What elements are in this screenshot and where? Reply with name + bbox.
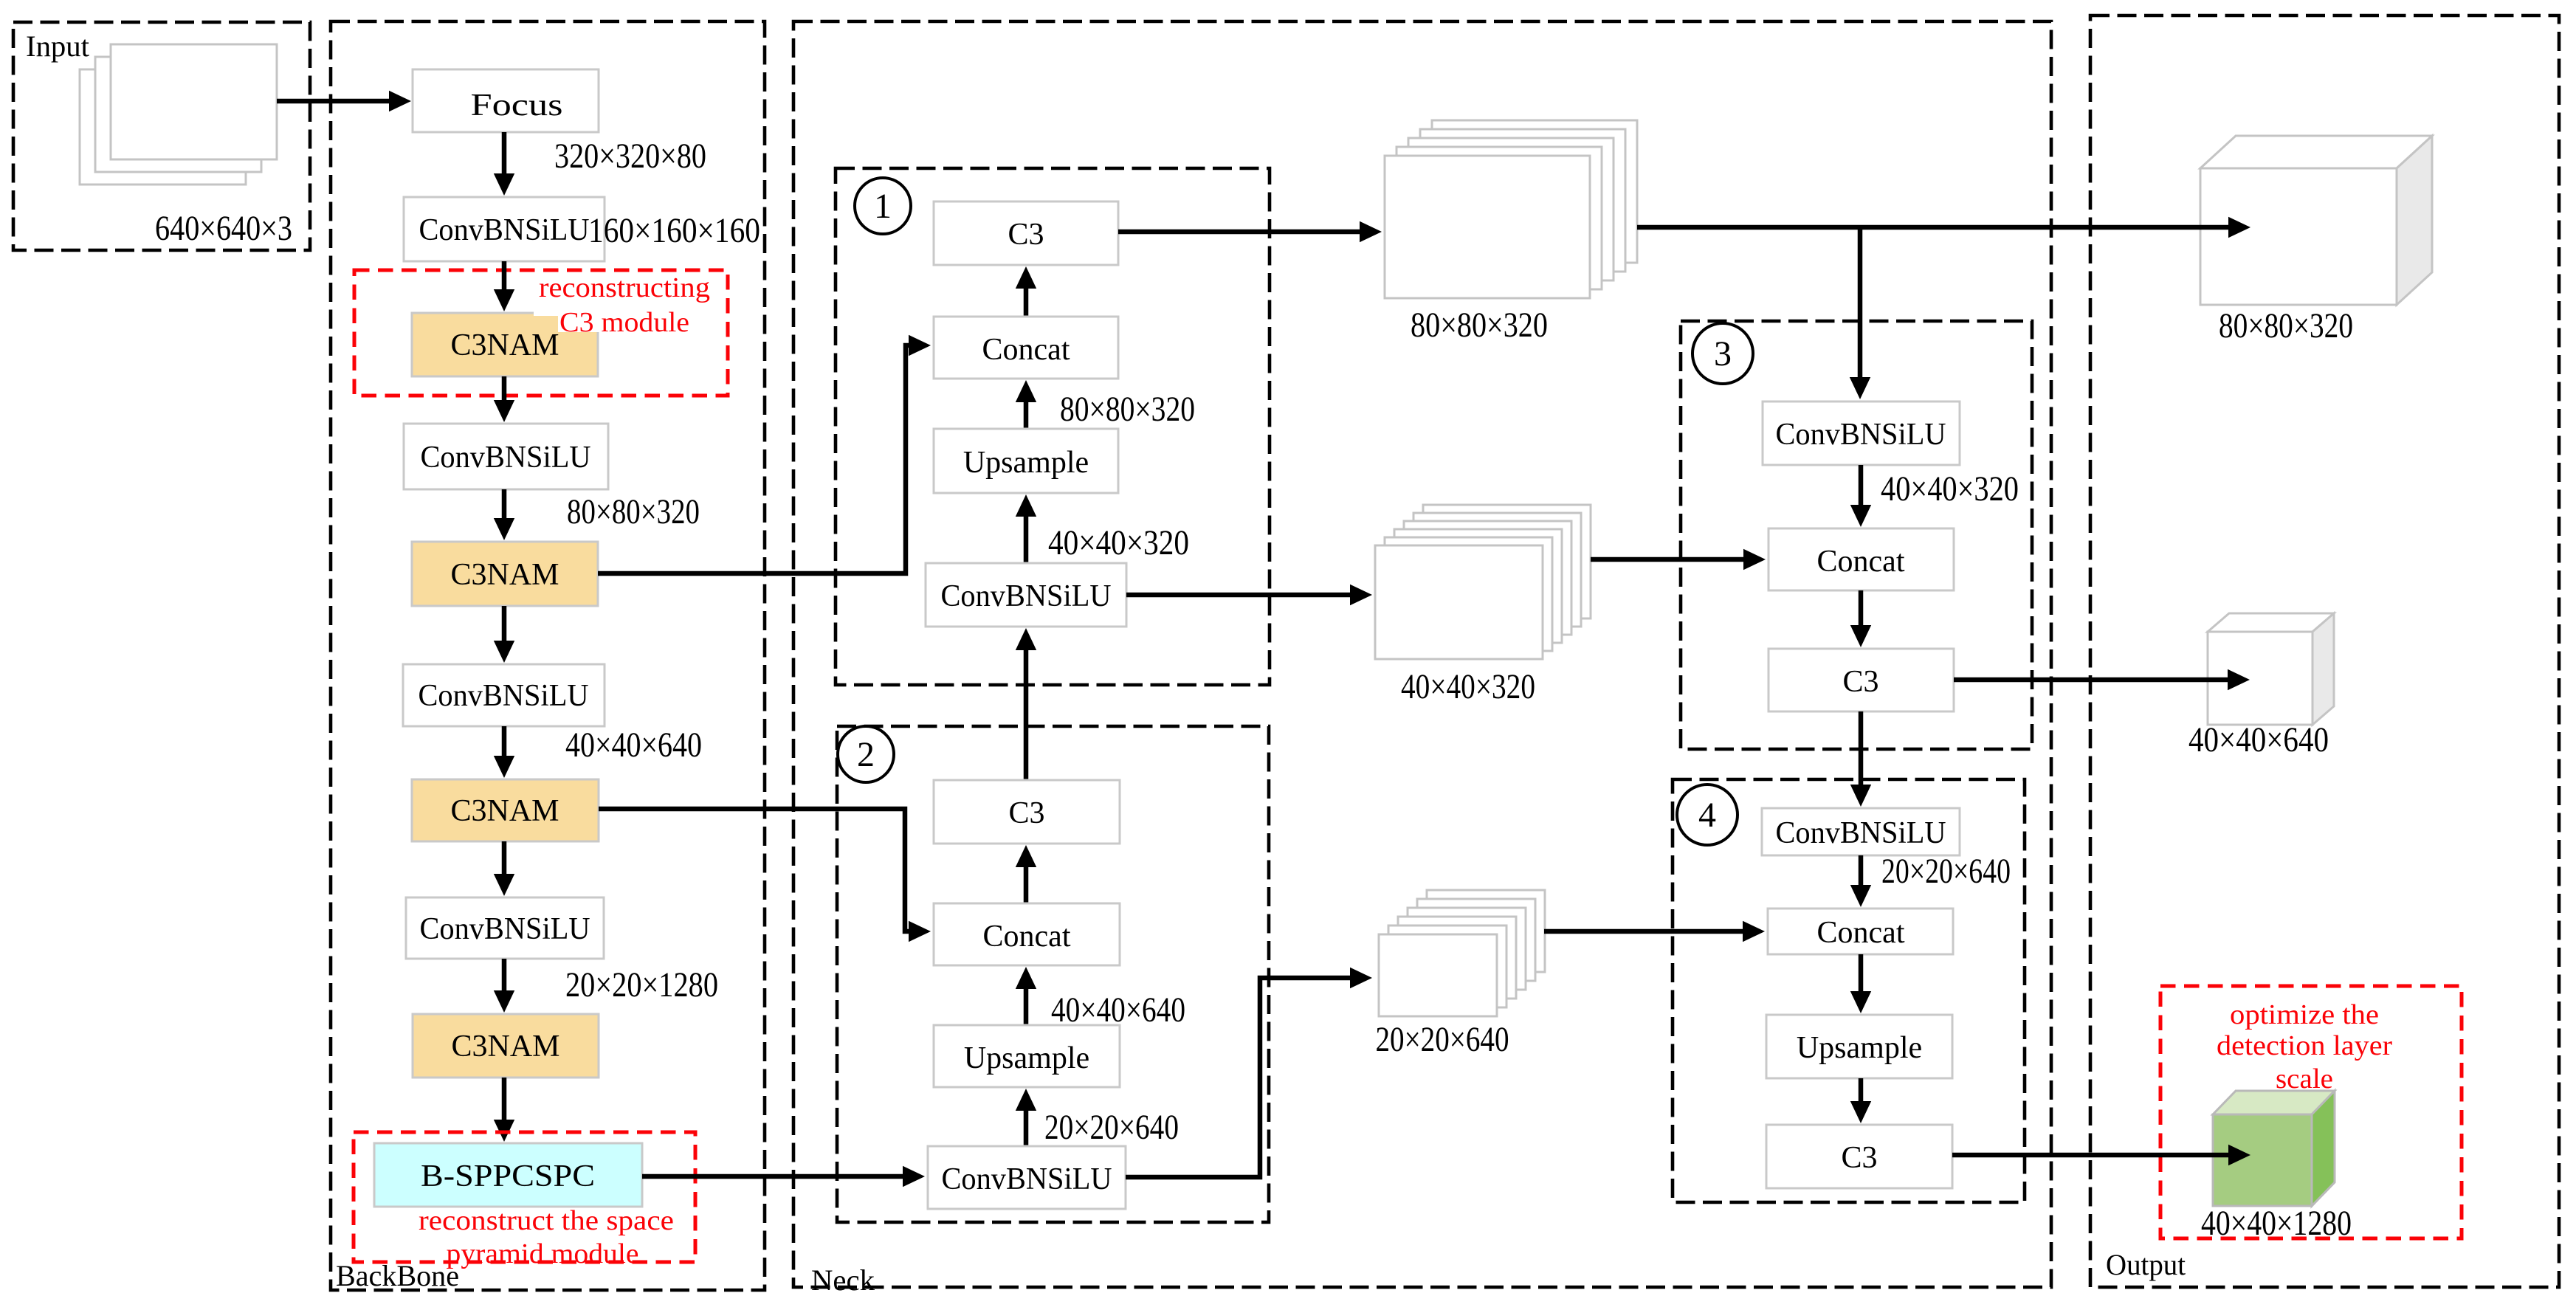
svg-text:Upsample: Upsample bbox=[1797, 1031, 1922, 1065]
svg-text:20×20×640: 20×20×640 bbox=[1881, 852, 2011, 891]
svg-text:Neck: Neck bbox=[811, 1264, 875, 1297]
module C3NAM 4 bbox=[413, 1014, 599, 1078]
svg-text:BackBone: BackBone bbox=[336, 1259, 459, 1292]
module ConvBNSiLU n3 bbox=[1763, 401, 1960, 465]
dashed box 3 bbox=[1681, 321, 2032, 749]
arrow Concat2 to C3 n2 bbox=[1024, 867, 1029, 903]
branch down to box3 bbox=[1858, 227, 1863, 377]
module ConvBNSiLU n1 bbox=[926, 563, 1126, 627]
arrow ConvBNSiLU2 to Upsample2 bbox=[1024, 1111, 1029, 1146]
module Upsample n4 bbox=[1766, 1015, 1952, 1078]
svg-text:4: 4 bbox=[1698, 796, 1716, 835]
arrow C3 n3 down to box4 bbox=[1859, 711, 1864, 785]
input image stack bbox=[80, 44, 277, 185]
container BackBone bbox=[331, 21, 765, 1290]
svg-text:C3: C3 bbox=[1008, 218, 1044, 252]
arrow Upsample to Concat bbox=[1024, 402, 1029, 429]
wire C3NAM2 to Concat1 bbox=[598, 345, 909, 573]
module C3NAM 3 bbox=[412, 779, 599, 841]
module Concat n4 bbox=[1768, 909, 1953, 954]
wire stack80 to cube80 bbox=[1637, 225, 2228, 230]
svg-text:160×160×160: 160×160×160 bbox=[588, 211, 760, 250]
svg-text:Concat: Concat bbox=[1817, 916, 1905, 950]
svg-text:reconstruct the space: reconstruct the space bbox=[419, 1205, 674, 1236]
svg-text:20×20×640: 20×20×640 bbox=[1044, 1108, 1179, 1147]
arrow C3NAM to ConvBNSiLU bbox=[502, 376, 507, 400]
arrow Focus to ConvBNSiLU bbox=[502, 132, 507, 173]
arrow Concat4 to Upsample4 bbox=[1859, 954, 1864, 991]
svg-text:optimize the: optimize the bbox=[2230, 999, 2379, 1030]
arrow ConvBNSiLU to Upsample bbox=[1024, 517, 1029, 563]
arrow ConvBNSiLU to C3NAM bbox=[502, 261, 507, 289]
svg-text:C3: C3 bbox=[1841, 1141, 1877, 1175]
arrow bbox=[502, 606, 507, 641]
svg-text:40×40×320: 40×40×320 bbox=[1881, 469, 2019, 509]
svg-text:ConvBNSiLU: ConvBNSiLU bbox=[419, 213, 590, 247]
module Concat n2 bbox=[934, 903, 1120, 965]
svg-text:ConvBNSiLU: ConvBNSiLU bbox=[419, 679, 589, 713]
svg-text:40×40×320: 40×40×320 bbox=[1048, 523, 1189, 562]
svg-text:2: 2 bbox=[857, 735, 875, 774]
stack 80x80x320 bbox=[1432, 120, 1637, 263]
arrow Upsample2 to Concat2 bbox=[1024, 989, 1029, 1025]
svg-text:ConvBNSiLU: ConvBNSiLU bbox=[941, 579, 1112, 613]
dashed box 1 bbox=[836, 168, 1270, 685]
svg-text:80×80×320: 80×80×320 bbox=[567, 492, 700, 531]
svg-text:C3NAM: C3NAM bbox=[451, 1030, 559, 1063]
cube 80x80x320 bbox=[2200, 136, 2432, 168]
module Focus bbox=[413, 69, 599, 132]
svg-text:ConvBNSiLU: ConvBNSiLU bbox=[1776, 418, 1946, 452]
svg-text:40×40×640: 40×40×640 bbox=[1051, 990, 1185, 1030]
container Input bbox=[13, 22, 310, 250]
circle 4 bbox=[1677, 785, 1738, 845]
arrow Upsample4 to C3 n4 bbox=[1859, 1078, 1864, 1101]
module ConvBNSiLU b3 bbox=[403, 664, 605, 726]
svg-text:Focus: Focus bbox=[471, 89, 563, 123]
svg-text:Concat: Concat bbox=[983, 920, 1071, 954]
svg-text:detection layer: detection layer bbox=[2217, 1030, 2392, 1061]
svg-text:Concat: Concat bbox=[982, 333, 1070, 367]
svg-text:1: 1 bbox=[874, 187, 892, 226]
svg-text:Output: Output bbox=[2106, 1248, 2186, 1281]
wire C3 n3 to cube40 bbox=[1954, 678, 2228, 683]
module Upsample n2 bbox=[934, 1025, 1120, 1087]
svg-text:C3 module: C3 module bbox=[559, 307, 689, 338]
wire stack40 to Concat3 bbox=[1591, 557, 1743, 562]
module ConvBNSiLU n4 bbox=[1762, 808, 1960, 855]
red dashed box reconstructing C3 module bbox=[354, 270, 728, 396]
arrow bbox=[502, 841, 507, 874]
svg-text:Input: Input bbox=[26, 30, 89, 63]
module ConvBNSiLU b2 bbox=[404, 424, 608, 489]
svg-text:40×40×640: 40×40×640 bbox=[2188, 720, 2329, 759]
arrow bbox=[502, 959, 507, 990]
arrow C3 n1 to stack80 bbox=[1118, 230, 1360, 235]
svg-text:ConvBNSiLU: ConvBNSiLU bbox=[421, 441, 591, 475]
svg-text:640×640×3: 640×640×3 bbox=[155, 209, 292, 248]
module C3 n3 bbox=[1769, 649, 1954, 711]
wire ConvBNSiLU n2 to stack20 bbox=[1126, 978, 1350, 1177]
module ConvBNSiLU b4 bbox=[406, 897, 604, 959]
svg-text:20×20×1280: 20×20×1280 bbox=[565, 965, 718, 1004]
module C3NAM 1 bbox=[412, 313, 598, 376]
module C3 n2 bbox=[934, 780, 1120, 844]
svg-text:C3: C3 bbox=[1842, 665, 1878, 699]
svg-text:C3: C3 bbox=[1008, 796, 1044, 830]
red dashed box reconstruct space pyramid bbox=[354, 1132, 695, 1262]
svg-text:80×80×320: 80×80×320 bbox=[2219, 306, 2353, 345]
arrow ConvBNSiLU4 to Concat4 bbox=[1859, 855, 1864, 885]
svg-text:Concat: Concat bbox=[1817, 545, 1905, 579]
container Neck bbox=[793, 21, 2051, 1287]
dashed box 4 bbox=[1673, 779, 2025, 1202]
arrow input to Focus bbox=[277, 99, 389, 104]
svg-text:C3NAM: C3NAM bbox=[450, 558, 559, 592]
module C3NAM 2 bbox=[412, 542, 598, 606]
module Concat n1 bbox=[934, 317, 1118, 379]
wire B-SPPCSPC to ConvBNSiLU n2 bbox=[642, 1174, 903, 1179]
module B-SPPCSPC bbox=[374, 1143, 642, 1207]
stack 20x20x640 bbox=[1427, 890, 1545, 972]
cube 40x40x640 bbox=[2208, 613, 2334, 632]
module Concat n3 bbox=[1769, 528, 1954, 590]
svg-text:40×40×320: 40×40×320 bbox=[1401, 667, 1535, 706]
wire stack20 to Concat4 bbox=[1544, 929, 1743, 934]
module ConvBNSiLU n2 bbox=[928, 1146, 1126, 1209]
green cube 40x40x1280 bbox=[2213, 1091, 2335, 1114]
svg-text:Upsample: Upsample bbox=[963, 446, 1089, 480]
arrow ConvBNSiLU3 to Concat3 bbox=[1859, 465, 1864, 505]
circle 2 bbox=[838, 726, 894, 782]
module Upsample n1 bbox=[934, 429, 1118, 493]
arrow bbox=[502, 489, 507, 518]
svg-text:pyramid module: pyramid module bbox=[447, 1238, 639, 1269]
svg-text:Upsample: Upsample bbox=[964, 1041, 1089, 1075]
svg-text:80×80×320: 80×80×320 bbox=[1411, 306, 1548, 345]
arrow ConvBNSiLU n1 to stack40 bbox=[1126, 593, 1350, 598]
red label reconstructing C3 module bbox=[534, 306, 691, 316]
arrow bbox=[502, 726, 507, 756]
svg-text:80×80×320: 80×80×320 bbox=[1060, 390, 1195, 429]
arrow Concat to C3 bbox=[1024, 289, 1029, 317]
svg-text:C3NAM: C3NAM bbox=[450, 794, 559, 828]
svg-text:40×40×1280: 40×40×1280 bbox=[2201, 1204, 2352, 1243]
wire C3 n4 to green cube bbox=[1952, 1153, 2228, 1158]
arrow bbox=[502, 1078, 507, 1120]
stack 40x40x320 bbox=[1423, 505, 1591, 618]
module C3 n1 bbox=[934, 201, 1118, 265]
svg-text:ConvBNSiLU: ConvBNSiLU bbox=[1776, 816, 1946, 850]
svg-text:320×320×80: 320×320×80 bbox=[554, 137, 706, 176]
svg-text:ConvBNSiLU: ConvBNSiLU bbox=[942, 1162, 1112, 1196]
svg-text:C3NAM: C3NAM bbox=[450, 328, 559, 362]
container Output bbox=[2090, 15, 2559, 1287]
svg-text:3: 3 bbox=[1714, 334, 1732, 373]
circle 1 bbox=[855, 178, 911, 234]
module ConvBNSiLU b1 bbox=[404, 197, 605, 261]
arrow Concat3 to C3 n3 bbox=[1859, 590, 1864, 625]
arrow C3 n2 up to ConvBNSiLU n1 bbox=[1024, 650, 1029, 780]
svg-text:reconstructing: reconstructing bbox=[539, 272, 710, 303]
red dashed box optimize detection layer bbox=[2160, 986, 2462, 1238]
svg-text:20×20×640: 20×20×640 bbox=[1376, 1020, 1509, 1059]
dashed box 2 bbox=[837, 726, 1269, 1222]
wire C3NAM3 to Concat2 bbox=[599, 809, 909, 931]
circle 3 bbox=[1692, 323, 1753, 384]
svg-text:B-SPPCSPC: B-SPPCSPC bbox=[421, 1159, 595, 1193]
svg-text:40×40×640: 40×40×640 bbox=[565, 725, 702, 765]
svg-text:ConvBNSiLU: ConvBNSiLU bbox=[420, 912, 590, 946]
module C3 n4 bbox=[1766, 1125, 1952, 1188]
